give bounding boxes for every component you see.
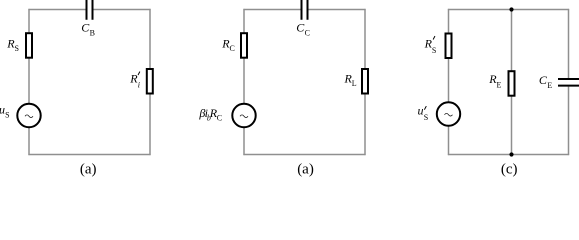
source u_S (ac source circle) [17,104,40,127]
wire: circuit (c) middle branch [511,10,513,155]
capacitor C_B plates [87,0,93,20]
controlled source beta*i_b*R_C (ac source circle) [232,104,255,127]
junction dot top [509,7,513,11]
wire: circuit (a1) right side [149,9,151,155]
svg-text:u: u [418,104,424,118]
capacitor C_C plates [302,0,308,20]
capacitor C_E plates [558,79,579,86]
wire: circuit (c) right side upper segment [568,9,570,78]
svg-text:C: C [230,44,235,53]
svg-text:i: i [138,80,140,89]
wire: circuit (c) bottom side [448,154,569,156]
junction dot bottom [509,152,513,156]
svg-text:(c): (c) [501,161,518,177]
svg-text:(a): (a) [297,161,314,177]
svg-text:(a): (a) [80,161,97,177]
source u'_S (ac source circle) [437,102,460,125]
resistor R'_i [147,69,153,94]
svg-text:S: S [15,44,19,53]
source u_S tilde [25,115,33,118]
wire: circuit (a1) top-right segment [94,9,151,11]
resistor R_S [26,33,32,58]
wire: circuit (a1) left side [28,9,30,155]
resistor R'_S [446,34,452,59]
svg-text:B: B [90,29,95,38]
resistor R_E [509,71,515,96]
svg-text:L: L [352,79,357,88]
svg-text:S: S [432,46,436,55]
wire: circuit (a2) top-right segment [309,9,366,11]
svg-text:E: E [547,81,552,90]
wire: circuit (a1) top-left segment [28,9,85,11]
wire: circuit (c) left side [448,9,450,155]
svg-text:S: S [5,110,9,119]
svg-text:C: C [305,29,310,38]
wire: circuit (a2) left side [243,9,245,155]
wire: circuit (a2) right side [364,9,366,155]
source u'_S tilde [445,113,453,116]
wire: circuit (c) right side lower segment [568,87,570,156]
svg-text:C: C [217,114,222,123]
svg-text:E: E [497,81,502,90]
wire: circuit (a2) top-left segment [243,9,300,11]
controlled source tilde [240,115,248,118]
wire: circuit (a1) bottom side [28,154,150,156]
resistor R_L [362,69,368,94]
wire: circuit (a2) bottom side [243,154,365,156]
wire: circuit (c) top side [448,9,569,11]
svg-text:S: S [424,113,428,122]
resistor R_C [241,33,247,58]
